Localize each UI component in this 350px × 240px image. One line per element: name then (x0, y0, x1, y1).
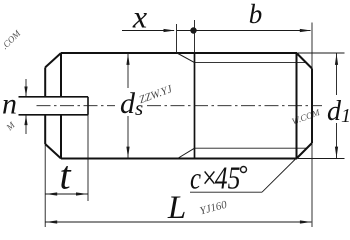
right chamfer top diagonal (297, 53, 313, 69)
dimension t line (45, 193, 88, 195)
svg-text:d: d (120, 87, 136, 120)
arrowhead ds top (126, 53, 129, 65)
left end face (slotted, upper segment) (44, 67, 46, 96)
chamfer note c×45° (190, 160, 240, 196)
extension line at thread runout start (176, 24, 178, 53)
watermark text fragments (0, 28, 321, 218)
dimension L line (45, 221, 311, 223)
left end face (slotted, lower segment) (44, 115, 46, 144)
thread root line top (195, 62, 307, 64)
arrowhead d1 top (335, 53, 338, 65)
dimension n line upper with arrow (25, 79, 27, 96)
body outline bottom line (61, 158, 297, 160)
label ds (120, 87, 143, 120)
right extension line (b and L) (311, 23, 313, 228)
arrowhead t left (46, 192, 58, 195)
d1 top extension line (298, 52, 345, 54)
right chamfer start line (296, 53, 298, 159)
extension line at thread start (194, 20, 196, 53)
svg-text:t: t (59, 153, 71, 198)
dimension d1 line lower (336, 123, 338, 159)
dimension n line lower with arrow (25, 115, 27, 134)
right end face (311, 69, 313, 144)
arrowhead t right (76, 192, 88, 195)
centerline (37, 105, 116, 107)
left chamfer top diagonal (45, 53, 61, 67)
chamfer note underline (190, 191, 262, 193)
arrowhead of b (300, 29, 312, 32)
svg-text:L: L (167, 190, 186, 226)
slot bottom (right end of slot) (87, 97, 89, 115)
right chamfer bottom diagonal (297, 143, 313, 159)
arrowhead n top (24, 87, 27, 97)
arrowhead n bottom (24, 115, 27, 125)
thread runout bottom diagonal (178, 148, 195, 158)
svg-text:n: n (2, 88, 17, 121)
node dot between x and b (190, 27, 196, 33)
thread runout top diagonal (177, 53, 195, 63)
svg-text:1: 1 (341, 105, 350, 127)
body outline top line (61, 52, 297, 54)
label d1 (327, 96, 350, 127)
centerline right part (147, 105, 322, 107)
svg-text:d: d (327, 96, 342, 127)
dimension d1 line upper (336, 53, 338, 95)
slot bottom edge (19, 114, 89, 116)
left extension line (face, t and L) (44, 144, 46, 227)
svg-text:b: b (249, 0, 263, 29)
thread root line bottom (195, 147, 307, 149)
left chamfer start line lower (60, 115, 62, 159)
degree sign of chamfer note (241, 167, 247, 173)
dimension ds line lower (127, 116, 129, 159)
d1 bottom extension line (298, 158, 345, 160)
svg-text:45: 45 (215, 161, 241, 196)
svg-text:s: s (135, 96, 143, 120)
arrowhead d1 bottom (335, 147, 338, 159)
slot depth extension line (87, 115, 89, 201)
svg-text:x: x (132, 0, 147, 35)
arrowhead L left (46, 220, 58, 223)
slot top edge (19, 96, 89, 98)
chamfer leader line (262, 159, 296, 193)
dimension b line (177, 30, 311, 32)
left chamfer start line upper (60, 53, 62, 97)
arrowhead ds bottom (126, 147, 129, 159)
left chamfer bottom diagonal (45, 144, 61, 159)
dimension x line (122, 30, 174, 32)
thread start boundary line (194, 53, 196, 159)
arrowhead L right (300, 220, 312, 223)
dimension ds line upper (127, 53, 129, 88)
arrowhead of x (164, 29, 176, 32)
